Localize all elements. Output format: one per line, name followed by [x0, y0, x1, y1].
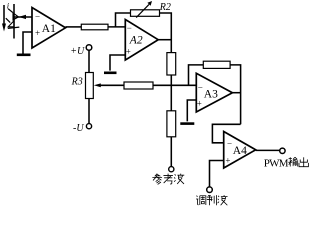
ground (A2) [104, 72, 117, 75]
photodiode light arrow 2 [6, 18, 10, 22]
resistor R2 (adjustable) [131, 10, 160, 16]
wire: lower resistor to terminal [170, 137, 172, 167]
svg-text:+: + [126, 47, 131, 57]
photodiode diode D1 triangle [13, 13, 19, 20]
svg-text:PWM: PWM [264, 157, 289, 169]
current arrow i [2, 5, 6, 32]
wire: photodiode to A1 inverting input, with current arrowhead [14, 15, 32, 19]
svg-text:+U: +U [70, 46, 85, 57]
svg-text:A1: A1 [42, 23, 56, 35]
svg-text:+: + [225, 156, 230, 166]
wire: A3 + input to ground [187, 100, 196, 121]
glyph 出 [299, 157, 308, 166]
terminal +U [86, 45, 92, 51]
svg-text:−: − [227, 138, 232, 148]
ground (A1) [17, 53, 31, 56]
svg-text:R2: R2 [159, 2, 171, 13]
wire: A3 feedback riser [189, 65, 204, 85]
wire: A3 output stub [232, 92, 240, 94]
glyph 参 [152, 174, 162, 185]
terminal PWM output [280, 148, 285, 153]
svg-text:+: + [35, 28, 40, 38]
wire: upper resistor to junction to lower resistor [170, 75, 172, 111]
resistor (A3 feedback) [203, 61, 230, 68]
wire: +U to R3 [88, 50, 90, 72]
glyph 考 [163, 174, 172, 184]
op-amp A4 [224, 132, 256, 169]
ground (A3) [180, 122, 194, 125]
op-amp A1 [32, 8, 66, 49]
photodiode diode D2 triangle [8, 21, 14, 27]
svg-text:R3: R3 [71, 76, 83, 87]
wire: A3 output down to A4 inverting input [212, 124, 240, 143]
resistor R1 (A1 output series) [81, 24, 108, 30]
terminal 参考波 [169, 167, 174, 172]
wire: A4 + input to modulation terminal [210, 161, 224, 187]
wire: A4 output [256, 149, 280, 151]
photodiode VD vertical wire [13, 4, 15, 39]
wire: wiper resistor to A3 inverting input [153, 84, 196, 86]
op-amp A3 [196, 73, 232, 112]
svg-text:−: − [35, 12, 40, 22]
svg-text:A4: A4 [233, 145, 247, 157]
photodiode light arrow 1 [8, 9, 12, 13]
glyph 调 [196, 196, 206, 206]
wire: A2 output to vertical node [158, 39, 171, 41]
wire: R2 to output node [160, 13, 172, 53]
photodiode cathode bar [8, 27, 19, 28]
op-amp A2 [125, 20, 158, 61]
glyph 输 [288, 157, 297, 166]
glyph 波 (参考波) [174, 174, 184, 184]
R3 wiper arrow [94, 83, 124, 87]
svg-text:-U: -U [73, 123, 84, 134]
potentiometer R3 [86, 73, 94, 99]
resistor (upper, A2 output chain) [167, 53, 176, 75]
wire: A2 + input to ground [110, 55, 125, 71]
glyph 制 [207, 195, 217, 205]
label PWM输出 [264, 157, 289, 169]
glyph 波 (调制波) [218, 195, 228, 205]
svg-text:−: − [198, 82, 203, 92]
svg-text:+: + [197, 99, 202, 109]
resistor (lower, to reference wave) [167, 111, 176, 137]
terminal 调制波 [207, 187, 213, 193]
resistor (wiper series) [124, 82, 153, 89]
R2 wiper arrow [136, 1, 152, 18]
wire: R1 to A2 inverting input [108, 26, 125, 28]
wire: A1 + input to ground [23, 32, 32, 54]
wire: feedback riser to R2 [116, 13, 131, 27]
wire: A1 output [66, 26, 82, 28]
svg-text:−: − [127, 23, 132, 33]
wire: feedback resistor to A3 output node [230, 65, 241, 124]
svg-text:A3: A3 [204, 89, 218, 101]
wire: R3 to -U [88, 99, 90, 124]
svg-text:A2: A2 [129, 34, 143, 46]
terminal -U [86, 124, 91, 129]
